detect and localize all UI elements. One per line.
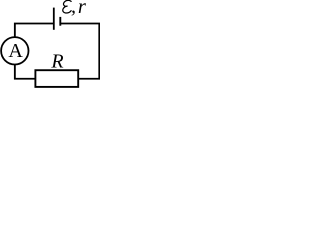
battery E,r : long plate	[53, 8, 55, 30]
svg-text:R: R	[50, 51, 63, 73]
battery E,r : short plate	[59, 17, 61, 26]
emf label script-E	[63, 0, 72, 13]
wire: top-left + left vertical to ammeter	[15, 24, 54, 39]
ammeter A1 circle	[1, 37, 28, 64]
svg-text:r: r	[78, 0, 87, 18]
resistor R rectangle	[35, 70, 78, 87]
svg-text:A: A	[8, 40, 23, 62]
svg-text:,: ,	[71, 0, 76, 18]
wire: top-right + right vertical + stub to resistor	[61, 24, 100, 79]
wire: left lower vertical + bottom-left to resistor	[15, 65, 36, 79]
